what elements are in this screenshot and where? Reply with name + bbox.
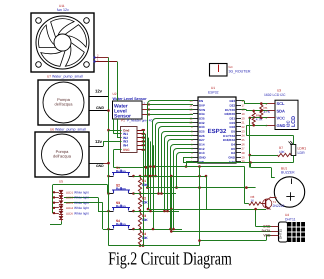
svg-text:LED5: LED5 [66, 211, 73, 215]
svg-text:White light: White light [74, 206, 89, 210]
svg-text:10K: 10K [142, 201, 149, 205]
svg-text:Button: Button [116, 187, 126, 191]
svg-text:I2C: I2C [286, 120, 291, 127]
svg-text:U5: U5 [59, 180, 63, 184]
svg-text:Button: Button [116, 204, 126, 208]
svg-text:IN4: IN4 [123, 144, 128, 148]
svg-text:LDR: LDR [298, 151, 306, 155]
svg-text:Button: Button [116, 222, 126, 226]
svg-text:VCC: VCC [277, 116, 286, 121]
svg-text:White light: White light [74, 196, 89, 200]
svg-text:SDA: SDA [277, 109, 286, 114]
svg-text:P1: P1 [121, 119, 125, 123]
svg-text:30: 30 [242, 160, 246, 164]
svg-text:VIN: VIN [199, 160, 204, 164]
svg-text:P_header grey 40: P_header grey 40 [127, 119, 153, 123]
svg-text:VDD: VDD [263, 234, 271, 238]
svg-text:12v: 12v [95, 139, 103, 144]
svg-text:White light: White light [74, 191, 89, 195]
svg-text:LED4: LED4 [66, 206, 73, 210]
svg-text:G4: G4 [229, 65, 233, 69]
svg-text:Water_pump_small: Water_pump_small [52, 75, 83, 79]
svg-text:ESP32: ESP32 [208, 91, 219, 95]
svg-text:fan 12v: fan 12v [57, 8, 69, 12]
svg-text:Fig.2 Circuit Diagram: Fig.2 Circuit Diagram [108, 250, 232, 270]
svg-text:DHT11: DHT11 [279, 229, 283, 239]
svg-text:LED2: LED2 [66, 196, 73, 200]
svg-text:3.3V: 3.3V [229, 160, 235, 164]
svg-text:U4: U4 [285, 213, 289, 217]
svg-text:VVC: VVC [123, 148, 130, 152]
svg-text:DATA: DATA [262, 229, 271, 233]
svg-text:U7: U7 [47, 75, 51, 79]
svg-text:U2: U2 [113, 92, 117, 96]
svg-text:dell'acqua: dell'acqua [53, 154, 72, 159]
svg-text:2N2222: 2N2222 [273, 204, 285, 208]
svg-text:White light: White light [74, 211, 89, 215]
svg-text:4.7K: 4.7K [264, 110, 271, 114]
svg-text:12v: 12v [95, 89, 103, 94]
svg-text:LED3: LED3 [66, 201, 73, 205]
svg-text:Button: Button [116, 169, 126, 173]
svg-text:LCD: LCD [291, 116, 297, 127]
svg-text:GND: GND [277, 123, 286, 128]
svg-text:U3: U3 [277, 89, 281, 93]
svg-text:1K: 1K [251, 199, 255, 203]
svg-text:4.7K: 4.7K [256, 117, 263, 121]
svg-text:10K: 10K [142, 236, 149, 240]
svg-text:10K: 10K [279, 150, 286, 154]
svg-text:SCL: SCL [277, 101, 286, 106]
svg-text:3G_ROUTER: 3G_ROUTER [229, 70, 251, 74]
svg-text:BUZZER: BUZZER [281, 171, 295, 175]
svg-text:10K: 10K [142, 183, 149, 187]
svg-text:U1: U1 [211, 86, 215, 90]
svg-text:dell'acqua: dell'acqua [55, 102, 74, 107]
svg-text:LED1: LED1 [66, 191, 73, 195]
svg-text:GND: GND [96, 164, 104, 168]
svg-text:DHT11: DHT11 [285, 218, 296, 222]
svg-text:1602 LCD I2C: 1602 LCD I2C [264, 93, 286, 97]
svg-text:U6: U6 [50, 128, 54, 132]
svg-text:Water_pump_small: Water_pump_small [55, 128, 86, 132]
svg-text:White light: White light [74, 201, 89, 205]
svg-text:+: + [144, 101, 146, 105]
svg-text:GND: GND [96, 106, 104, 110]
svg-text:10K: 10K [142, 218, 149, 222]
